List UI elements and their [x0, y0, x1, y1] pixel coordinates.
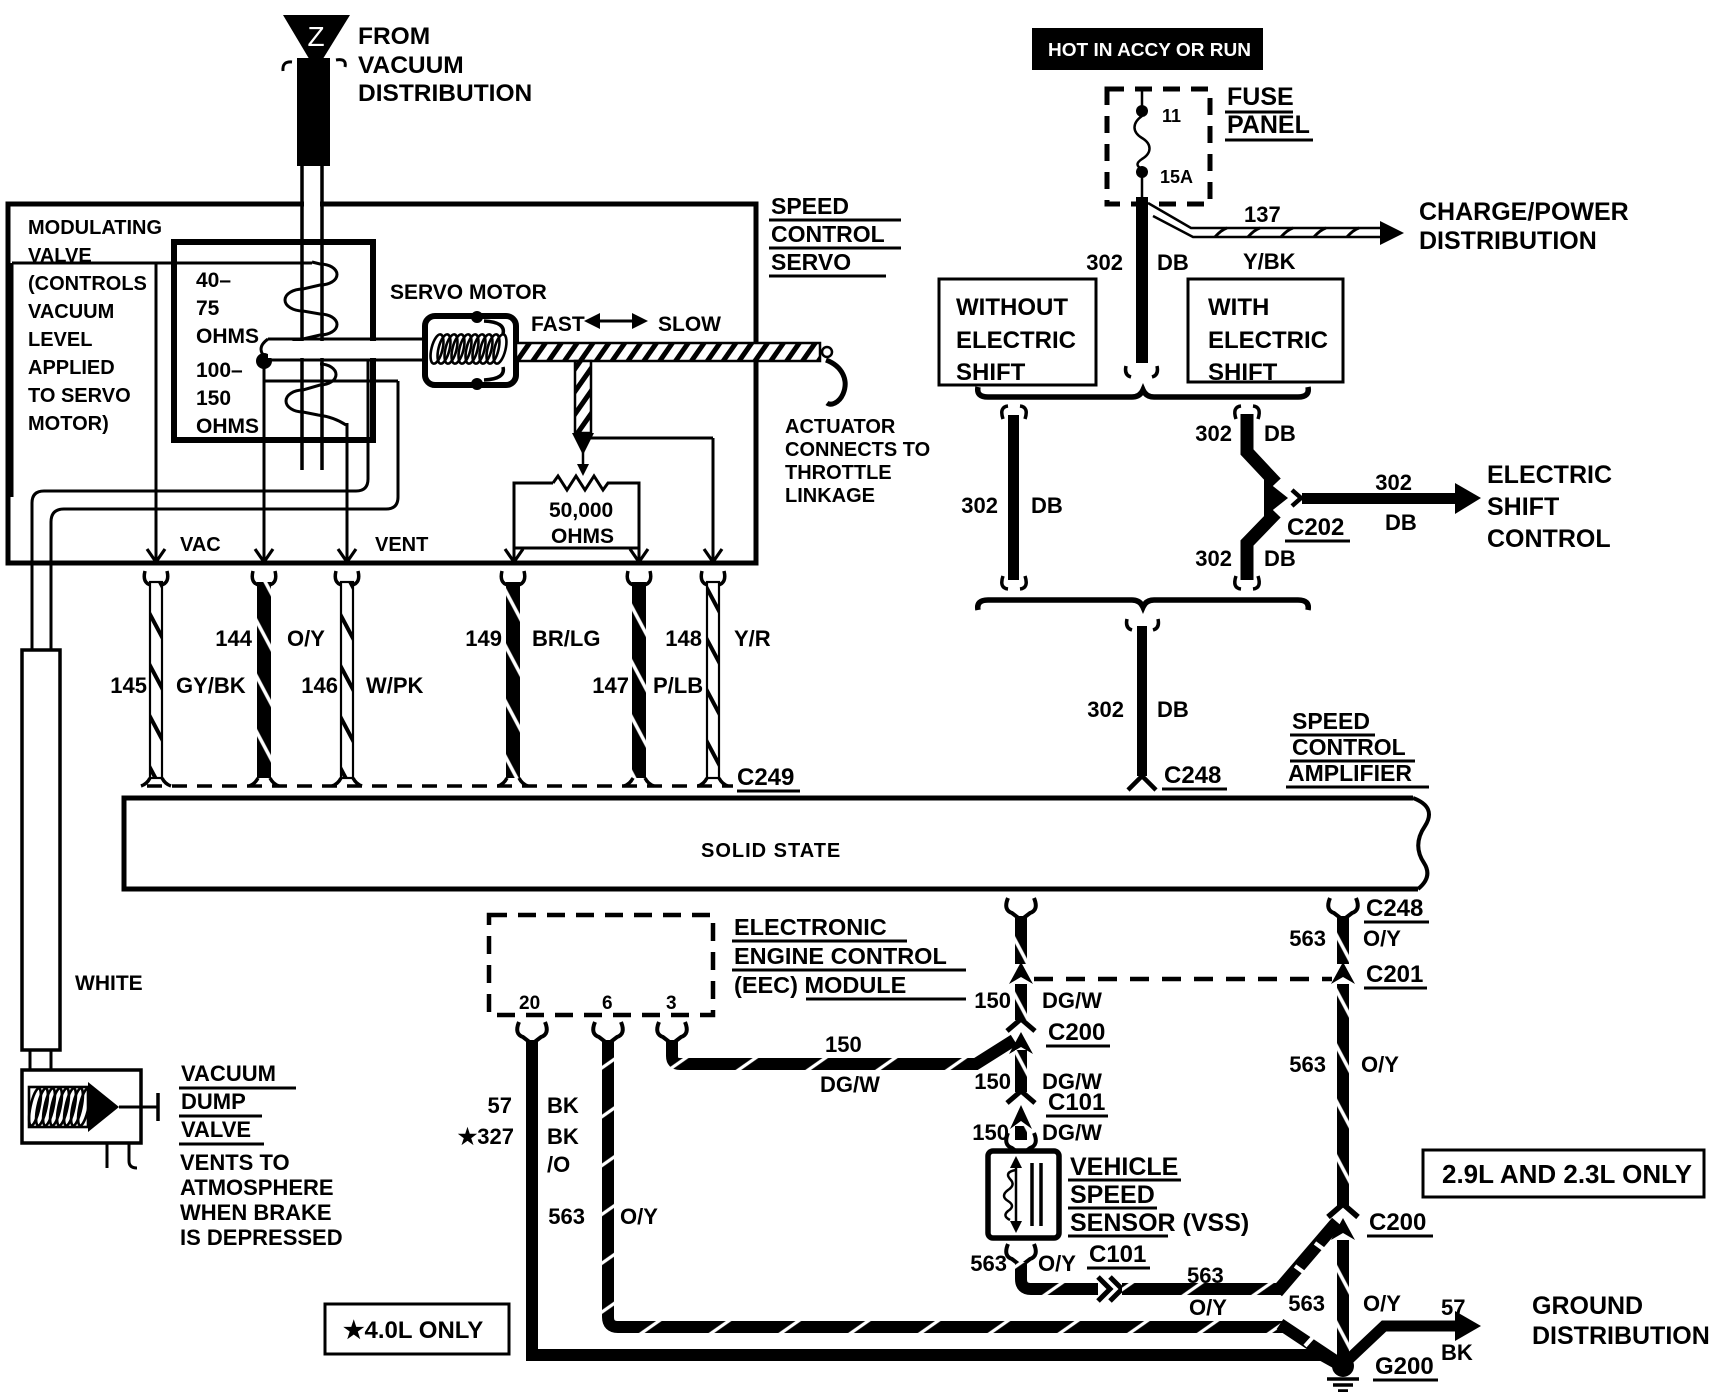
wire 57 BK from pin 20 — [532, 1040, 1340, 1365]
svg-text:149: 149 — [465, 626, 502, 651]
svg-text:BK: BK — [1441, 1340, 1473, 1365]
svg-text:APPLIED: APPLIED — [28, 357, 115, 379]
svg-text:★4.0L ONLY: ★4.0L ONLY — [343, 1317, 483, 1344]
actuator T branch to potentiometer wiper — [572, 361, 594, 476]
terminal wire 149 inside servo box — [513, 548, 516, 560]
terminal wire 144 inside servo box — [263, 361, 266, 560]
modulating valve inner box — [174, 242, 373, 440]
potentiometer 50,000 ohms — [514, 476, 639, 548]
svg-text:G200: G200 — [1375, 1353, 1434, 1380]
svg-text:CONNECTS TO: CONNECTS TO — [785, 439, 930, 461]
svg-text:O/Y: O/Y — [1189, 1295, 1227, 1320]
svg-text:O/Y: O/Y — [620, 1204, 658, 1229]
svg-text:150: 150 — [974, 1069, 1011, 1094]
wire 302 DB to electric shift control — [1302, 470, 1481, 535]
white vacuum hose — [22, 650, 60, 1070]
svg-text:SPEED: SPEED — [1292, 708, 1370, 734]
svg-text:FROM: FROM — [358, 23, 430, 50]
svg-text:C248: C248 — [1366, 895, 1423, 922]
fuse panel dashed box — [1107, 89, 1210, 204]
svg-text:SHIFT: SHIFT — [1487, 493, 1559, 521]
wire 57 BK to ground distribution — [1348, 1295, 1481, 1365]
label 563 O/Y on pin 6 wire — [548, 1204, 658, 1229]
svg-text:2.9L AND 2.3L ONLY: 2.9L AND 2.3L ONLY — [1442, 1159, 1692, 1189]
vacuum dump valve — [22, 1070, 158, 1168]
svg-text:ACTUATOR: ACTUATOR — [785, 416, 896, 438]
svg-text:ATMOSPHERE: ATMOSPHERE — [180, 1175, 334, 1200]
svg-text:WHEN BRAKE: WHEN BRAKE — [180, 1200, 332, 1225]
with electric shift box — [1188, 279, 1343, 386]
svg-text:SHIFT: SHIFT — [1208, 359, 1278, 386]
label C249 — [737, 764, 800, 791]
svg-text:40–: 40– — [196, 269, 231, 292]
svg-text:302: 302 — [1087, 697, 1124, 722]
vacuum source symbol Z (from vacuum distribution) — [283, 15, 350, 166]
ground G200 — [1327, 1355, 1359, 1391]
svg-text:137: 137 — [1244, 202, 1281, 227]
svg-text:150: 150 — [972, 1120, 1009, 1145]
svg-text:SERVO MOTOR: SERVO MOTOR — [390, 281, 547, 304]
label FUSE PANEL — [1225, 83, 1313, 140]
svg-text:WITHOUT: WITHOUT — [956, 294, 1068, 321]
EEC module dashed box — [489, 915, 713, 1015]
svg-text:15A: 15A — [1160, 167, 1193, 187]
svg-text:P/LB: P/LB — [653, 673, 703, 698]
connector C101 label bottom — [1087, 1241, 1150, 1268]
wire 563 O/Y C201 to C200 right column — [1289, 984, 1399, 1240]
svg-text:6: 6 — [602, 993, 613, 1014]
svg-text:C200: C200 — [1048, 1019, 1105, 1046]
wire 302 DB from fuse — [1086, 197, 1189, 377]
svg-text:302: 302 — [1195, 546, 1232, 571]
wire 302 DB to C248 — [1087, 619, 1189, 790]
svg-text:Z: Z — [307, 21, 324, 52]
wire 144 O/Y — [249, 571, 279, 786]
svg-text:THROTTLE: THROTTLE — [785, 462, 892, 484]
svg-text:O/Y: O/Y — [287, 626, 325, 651]
svg-text:VENT: VENT — [375, 534, 428, 556]
connector C248 label at amplifier — [1162, 762, 1227, 789]
terminal wire 146 inside servo box — [346, 423, 349, 560]
servo motor M1 — [425, 311, 516, 390]
svg-text:302: 302 — [1375, 470, 1412, 495]
svg-text:SHIFT: SHIFT — [956, 359, 1026, 386]
svg-text:SERVO: SERVO — [771, 249, 851, 275]
svg-text:Y/BK: Y/BK — [1243, 249, 1296, 274]
svg-text:LEVEL: LEVEL — [28, 329, 92, 351]
wire 563 O/Y from pin 6 — [608, 1040, 1286, 1327]
svg-text:VACUUM: VACUUM — [181, 1061, 276, 1086]
wire 150 DG/W C101 to VSS — [1006, 1126, 1036, 1155]
svg-text:DB: DB — [1264, 546, 1296, 571]
svg-text:57: 57 — [488, 1093, 512, 1118]
label ACTUATOR CONNECTS TO THROTTLE LINKAGE — [785, 416, 930, 507]
vehicle speed sensor VSS — [988, 1151, 1059, 1238]
svg-text:C201: C201 — [1366, 961, 1423, 988]
svg-text:DISTRIBUTION: DISTRIBUTION — [1532, 1322, 1710, 1350]
svg-text:SLOW: SLOW — [658, 313, 721, 336]
svg-text:VALVE: VALVE — [181, 1117, 251, 1142]
terminal wire 147 inside servo box — [638, 548, 641, 560]
svg-text:100–: 100– — [196, 359, 243, 382]
2.9L and 2.3L only box — [1423, 1150, 1704, 1197]
wire 145 GY/BK — [141, 571, 171, 786]
svg-text:MOTOR): MOTOR) — [28, 413, 109, 435]
svg-text:★327: ★327 — [458, 1124, 514, 1149]
wire 563 O/Y C200 to ground — [1337, 1240, 1349, 1362]
svg-text:CONTROL: CONTROL — [771, 221, 885, 247]
vacuum passage valve to servo motor — [261, 339, 428, 360]
wire 137 Y/BK branch — [1148, 202, 1404, 274]
wiper wire to terminal 148 — [590, 438, 713, 562]
connector C101 label mid column — [1046, 1089, 1108, 1116]
svg-text:OHMS: OHMS — [551, 525, 614, 548]
wire labels row 2 — [110, 673, 703, 698]
svg-text:C200: C200 — [1369, 1209, 1426, 1236]
svg-text:FAST: FAST — [531, 313, 585, 336]
label FAST SLOW with arrow — [531, 313, 721, 336]
svg-text:ELECTRIC: ELECTRIC — [956, 327, 1076, 354]
svg-text:DG/W: DG/W — [1042, 988, 1102, 1013]
label FROM VACUUM DISTRIBUTION — [358, 23, 532, 107]
svg-text:(CONTROLS: (CONTROLS — [28, 273, 147, 295]
svg-text:144: 144 — [215, 626, 252, 651]
wire from coil top to left — [12, 263, 312, 497]
connector C201 dashed interface line — [1034, 977, 1332, 982]
svg-text:BK: BK — [547, 1093, 579, 1118]
svg-text:BR/LG: BR/LG — [532, 626, 600, 651]
svg-text:DISTRIBUTION: DISTRIBUTION — [358, 80, 532, 107]
svg-text:ELECTRIC: ELECTRIC — [1208, 327, 1328, 354]
svg-text:GY/BK: GY/BK — [176, 673, 246, 698]
svg-text:ENGINE CONTROL: ENGINE CONTROL — [734, 943, 947, 969]
svg-text:WITH: WITH — [1208, 294, 1269, 321]
svg-text:302: 302 — [1195, 421, 1232, 446]
pin 3 connector — [657, 1022, 687, 1044]
without-shift branch wire 302 DB — [961, 406, 1063, 589]
svg-text:50,000: 50,000 — [549, 499, 613, 522]
wire 150 DG/W amplifier to C201 interface — [974, 898, 1102, 1013]
svg-text:WHITE: WHITE — [75, 972, 143, 995]
svg-text:Y/R: Y/R — [734, 626, 771, 651]
vacuum passage to dump valve (upper branch) — [32, 360, 398, 650]
svg-text:VACUUM: VACUUM — [358, 52, 464, 79]
svg-text:CONTROL: CONTROL — [1487, 525, 1611, 553]
svg-text:C101: C101 — [1048, 1089, 1105, 1116]
svg-text:HOT IN ACCY OR RUN: HOT IN ACCY OR RUN — [1048, 40, 1251, 60]
svg-text:563: 563 — [970, 1251, 1007, 1276]
svg-text:VENTS TO: VENTS TO — [180, 1150, 290, 1175]
svg-text:146: 146 — [301, 673, 338, 698]
wire 146 W/PK — [332, 571, 362, 786]
label VEHICLE SPEED SENSOR (VSS) — [1068, 1153, 1249, 1237]
wire 563 O/Y amplifier to C201 right column — [1289, 898, 1401, 984]
svg-text:563: 563 — [1187, 1263, 1224, 1288]
svg-text:OHMS: OHMS — [196, 415, 259, 438]
top brace connector — [978, 387, 1309, 397]
svg-text:145: 145 — [110, 673, 147, 698]
upper valve coil 40-75 ohms — [274, 262, 337, 351]
svg-text:VACUUM: VACUUM — [28, 301, 114, 323]
label G200 — [1373, 1353, 1438, 1380]
svg-text:150: 150 — [196, 387, 231, 410]
svg-text:20: 20 — [519, 993, 540, 1014]
wire 150 DG/W C201 to C200 — [974, 984, 1102, 1094]
svg-text:DB: DB — [1264, 421, 1296, 446]
fuse 11 15A — [1135, 89, 1194, 204]
svg-text:DG/W: DG/W — [820, 1072, 880, 1097]
label VACUUM DUMP VALVE — [179, 1061, 296, 1144]
svg-text:VAC: VAC — [180, 534, 221, 556]
connector C248 label right column — [1364, 895, 1429, 922]
terminal arrowheads at servo box edge — [147, 549, 722, 562]
svg-text:C248: C248 — [1164, 762, 1221, 789]
label CHARGE/POWER DISTRIBUTION — [1419, 198, 1629, 255]
label ELECTRONIC ENGINE CONTROL (EEC) MODULE — [732, 914, 966, 999]
without electric shift box — [939, 279, 1096, 386]
junction dot on wire 144 tap — [256, 353, 272, 369]
connector C200 label mid column — [1046, 1019, 1110, 1046]
svg-text:GROUND: GROUND — [1532, 1292, 1643, 1320]
connector C101 chevrons — [1098, 1277, 1122, 1301]
label VENTS TO ATMOSPHERE WHEN BRAKE IS DEPRESSED — [180, 1150, 343, 1250]
svg-text:3: 3 — [666, 993, 677, 1014]
svg-text:W/PK: W/PK — [366, 673, 424, 698]
svg-text:147: 147 — [592, 673, 629, 698]
svg-text:563: 563 — [1288, 1291, 1325, 1316]
svg-text:TO SERVO: TO SERVO — [28, 385, 131, 407]
svg-text:DB: DB — [1157, 697, 1189, 722]
label SPEED CONTROL SERVO — [769, 193, 901, 276]
svg-text:150: 150 — [974, 988, 1011, 1013]
connector C201 label right column — [1364, 961, 1427, 988]
svg-text:OHMS: OHMS — [196, 325, 259, 348]
svg-text:DB: DB — [1031, 493, 1063, 518]
svg-text:AMPLIFIER: AMPLIFIER — [1288, 760, 1412, 786]
svg-text:MODULATING: MODULATING — [28, 217, 162, 239]
svg-text:/O: /O — [547, 1152, 570, 1177]
svg-text:302: 302 — [961, 493, 998, 518]
label 100-150 OHMS — [196, 359, 259, 438]
svg-text:563: 563 — [1289, 926, 1326, 951]
wire 149 BR/LG — [498, 571, 528, 786]
svg-text:563: 563 — [1289, 1052, 1326, 1077]
with-shift branch wire 302 DB to C202 — [1195, 406, 1301, 589]
vacuum tube from distribution — [302, 166, 322, 470]
svg-text:ELECTRONIC: ELECTRONIC — [734, 914, 887, 940]
svg-text:SPEED: SPEED — [771, 193, 849, 219]
svg-text:(EEC) MODULE: (EEC) MODULE — [734, 972, 906, 998]
svg-text:11: 11 — [1162, 106, 1181, 126]
svg-text:302: 302 — [1086, 250, 1123, 275]
svg-text:C202: C202 — [1287, 514, 1344, 541]
svg-text:150: 150 — [825, 1032, 862, 1057]
svg-text:PANEL: PANEL — [1227, 111, 1310, 139]
bottom brace connector — [978, 600, 1309, 610]
4.0L only box — [325, 1304, 509, 1354]
label SPEED CONTROL AMPLIFIER — [1286, 708, 1429, 787]
wire 150 DG/W C200 to C101 — [972, 1050, 1102, 1145]
svg-text:O/Y: O/Y — [1363, 926, 1401, 951]
label ELECTRIC SHIFT CONTROL — [1487, 461, 1612, 553]
svg-text:DB: DB — [1385, 510, 1417, 535]
svg-text:DB: DB — [1157, 250, 1189, 275]
svg-text:FUSE: FUSE — [1227, 83, 1294, 111]
svg-text:LINKAGE: LINKAGE — [785, 485, 875, 507]
label 40-75 OHMS — [196, 269, 259, 348]
svg-text:C249: C249 — [737, 764, 794, 791]
labels 57 BK and 327 BK/O — [458, 1093, 579, 1177]
connector C249 dashed line — [147, 784, 733, 788]
svg-text:SENSOR (VSS): SENSOR (VSS) — [1070, 1209, 1249, 1237]
svg-text:O/Y: O/Y — [1363, 1291, 1401, 1316]
svg-text:BK: BK — [547, 1124, 579, 1149]
svg-text:CHARGE/POWER: CHARGE/POWER — [1419, 198, 1629, 226]
svg-text:75: 75 — [196, 297, 220, 320]
connector C202 label — [1285, 514, 1350, 541]
wire 148 Y/R — [698, 571, 728, 786]
svg-text:SPEED: SPEED — [1070, 1181, 1155, 1209]
wire 563 O/Y below VSS to C101 — [970, 1244, 1098, 1289]
svg-text:563: 563 — [548, 1204, 585, 1229]
svg-text:C101: C101 — [1089, 1241, 1146, 1268]
wire labels row 1 — [215, 626, 771, 651]
label MODULATING VALVE — [28, 217, 162, 435]
svg-text:148: 148 — [665, 626, 702, 651]
pin 6 connector — [593, 1022, 623, 1044]
wire 147 P/LB — [624, 571, 654, 786]
svg-text:VEHICLE: VEHICLE — [1070, 1153, 1178, 1181]
svg-text:IS DEPRESSED: IS DEPRESSED — [180, 1225, 343, 1250]
label GROUND DISTRIBUTION — [1532, 1292, 1710, 1350]
wire 563 O/Y from C101 to C200 — [1122, 1283, 1283, 1295]
wire 150 DG/W from pin 3 — [672, 1040, 1014, 1064]
connector C200 label right column — [1367, 1209, 1433, 1236]
terminal wire 145 inside servo box — [155, 263, 158, 560]
svg-text:57: 57 — [1441, 1295, 1465, 1320]
svg-text:O/Y: O/Y — [1038, 1251, 1076, 1276]
svg-text:SOLID STATE: SOLID STATE — [701, 840, 841, 862]
svg-text:DG/W: DG/W — [1042, 1120, 1102, 1145]
svg-text:O/Y: O/Y — [1361, 1052, 1399, 1077]
actuator bar (hatched) — [516, 343, 845, 404]
label 150 DG/W on pin 3 wire — [820, 1032, 880, 1097]
lower valve coil 100-150 ohms — [286, 364, 346, 425]
svg-text:DISTRIBUTION: DISTRIBUTION — [1419, 227, 1597, 255]
speed control servo box — [8, 204, 756, 563]
svg-text:ELECTRIC: ELECTRIC — [1487, 461, 1612, 489]
hot in accy or run banner — [1032, 28, 1263, 70]
svg-text:CONTROL: CONTROL — [1292, 734, 1406, 760]
speed control amplifier solid state box — [124, 798, 1429, 889]
svg-text:DUMP: DUMP — [181, 1089, 246, 1114]
pin 20 connector — [517, 1022, 547, 1044]
